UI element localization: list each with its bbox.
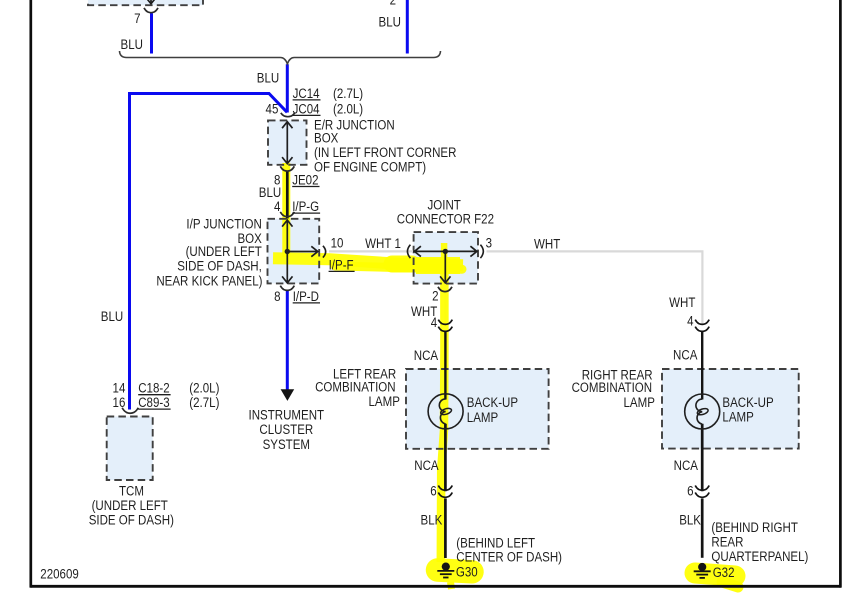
svg-text:220609: 220609 — [40, 566, 78, 581]
svg-text:NCA: NCA — [414, 458, 439, 473]
svg-text:JOINT: JOINT — [428, 198, 462, 213]
svg-text:(2.0L): (2.0L) — [333, 101, 363, 116]
svg-text:CLUSTER: CLUSTER — [259, 422, 313, 437]
svg-text:6: 6 — [687, 484, 693, 499]
svg-text:BLU: BLU — [257, 71, 279, 86]
svg-text:8: 8 — [274, 289, 280, 304]
svg-text:BLK: BLK — [679, 513, 701, 528]
svg-text:10: 10 — [331, 236, 344, 251]
svg-text:C89-3: C89-3 — [138, 395, 169, 410]
svg-text:6: 6 — [430, 484, 436, 499]
svg-text:NCA: NCA — [414, 348, 439, 363]
svg-text:LAMP: LAMP — [722, 410, 753, 425]
svg-text:WHT: WHT — [365, 236, 392, 251]
svg-text:COMBINATION: COMBINATION — [315, 380, 396, 395]
svg-text:BOX: BOX — [314, 131, 339, 146]
svg-text:1: 1 — [394, 236, 400, 251]
svg-text:I/P-G: I/P-G — [292, 199, 319, 214]
svg-text:SIDE OF DASH,: SIDE OF DASH, — [177, 259, 262, 274]
svg-text:C18-2: C18-2 — [138, 381, 169, 396]
svg-text:INSTRUMENT: INSTRUMENT — [249, 408, 325, 423]
svg-text:(IN LEFT FRONT CORNER: (IN LEFT FRONT CORNER — [314, 145, 456, 160]
svg-text:7: 7 — [134, 11, 140, 26]
svg-text:CONNECTOR F22: CONNECTOR F22 — [397, 212, 494, 227]
svg-text:LAMP: LAMP — [467, 410, 498, 425]
svg-text:BLU: BLU — [121, 37, 143, 52]
svg-text:I/P-D: I/P-D — [293, 289, 319, 304]
svg-text:NCA: NCA — [673, 348, 698, 363]
svg-text:SIDE OF DASH): SIDE OF DASH) — [89, 512, 174, 527]
svg-text:CENTER OF DASH): CENTER OF DASH) — [456, 549, 562, 564]
svg-text:3: 3 — [486, 236, 492, 251]
svg-text:JE02: JE02 — [292, 173, 318, 188]
svg-text:NEAR KICK PANEL): NEAR KICK PANEL) — [156, 273, 262, 288]
svg-text:BLK: BLK — [421, 513, 443, 528]
svg-text:OF ENGINE COMPT): OF ENGINE COMPT) — [314, 159, 426, 174]
svg-text:4: 4 — [431, 315, 437, 330]
svg-text:COMBINATION: COMBINATION — [572, 380, 653, 395]
svg-text:BLU: BLU — [379, 15, 401, 30]
svg-text:2: 2 — [390, 0, 396, 8]
svg-text:I/P JUNCTION: I/P JUNCTION — [186, 217, 261, 232]
svg-text:JC14: JC14 — [293, 86, 320, 101]
svg-text:LAMP: LAMP — [623, 395, 654, 410]
svg-text:(BEHIND RIGHT: (BEHIND RIGHT — [711, 520, 798, 535]
svg-text:LAMP: LAMP — [368, 394, 399, 409]
svg-text:BLU: BLU — [101, 309, 123, 324]
svg-text:(2.7L): (2.7L) — [189, 395, 219, 410]
svg-text:(UNDER LEFT: (UNDER LEFT — [92, 498, 169, 513]
svg-text:NCA: NCA — [674, 458, 699, 473]
svg-text:JC04: JC04 — [293, 101, 320, 116]
svg-text:BACK-UP: BACK-UP — [722, 395, 773, 410]
svg-text:45: 45 — [266, 101, 279, 116]
svg-text:BACK-UP: BACK-UP — [467, 395, 518, 410]
svg-text:2: 2 — [432, 289, 438, 304]
svg-text:I/P-F: I/P-F — [329, 257, 354, 272]
svg-text:REAR: REAR — [711, 535, 743, 550]
svg-text:(2.0L): (2.0L) — [189, 381, 219, 396]
svg-text:4: 4 — [687, 314, 693, 329]
svg-text:WHT: WHT — [669, 295, 696, 310]
svg-text:BLU: BLU — [259, 185, 281, 200]
svg-text:16: 16 — [113, 395, 126, 410]
svg-text:G30: G30 — [456, 565, 478, 580]
svg-text:(BEHIND LEFT: (BEHIND LEFT — [456, 535, 535, 550]
svg-text:TCM: TCM — [119, 483, 144, 498]
svg-text:(2.7L): (2.7L) — [333, 86, 363, 101]
svg-text:QUARTERPANEL): QUARTERPANEL) — [711, 549, 808, 564]
svg-text:WHT: WHT — [534, 237, 561, 252]
svg-text:(UNDER LEFT: (UNDER LEFT — [186, 244, 263, 259]
svg-text:SYSTEM: SYSTEM — [263, 437, 310, 452]
svg-text:4: 4 — [274, 199, 280, 214]
svg-text:14: 14 — [113, 381, 126, 396]
svg-text:G32: G32 — [713, 565, 735, 580]
